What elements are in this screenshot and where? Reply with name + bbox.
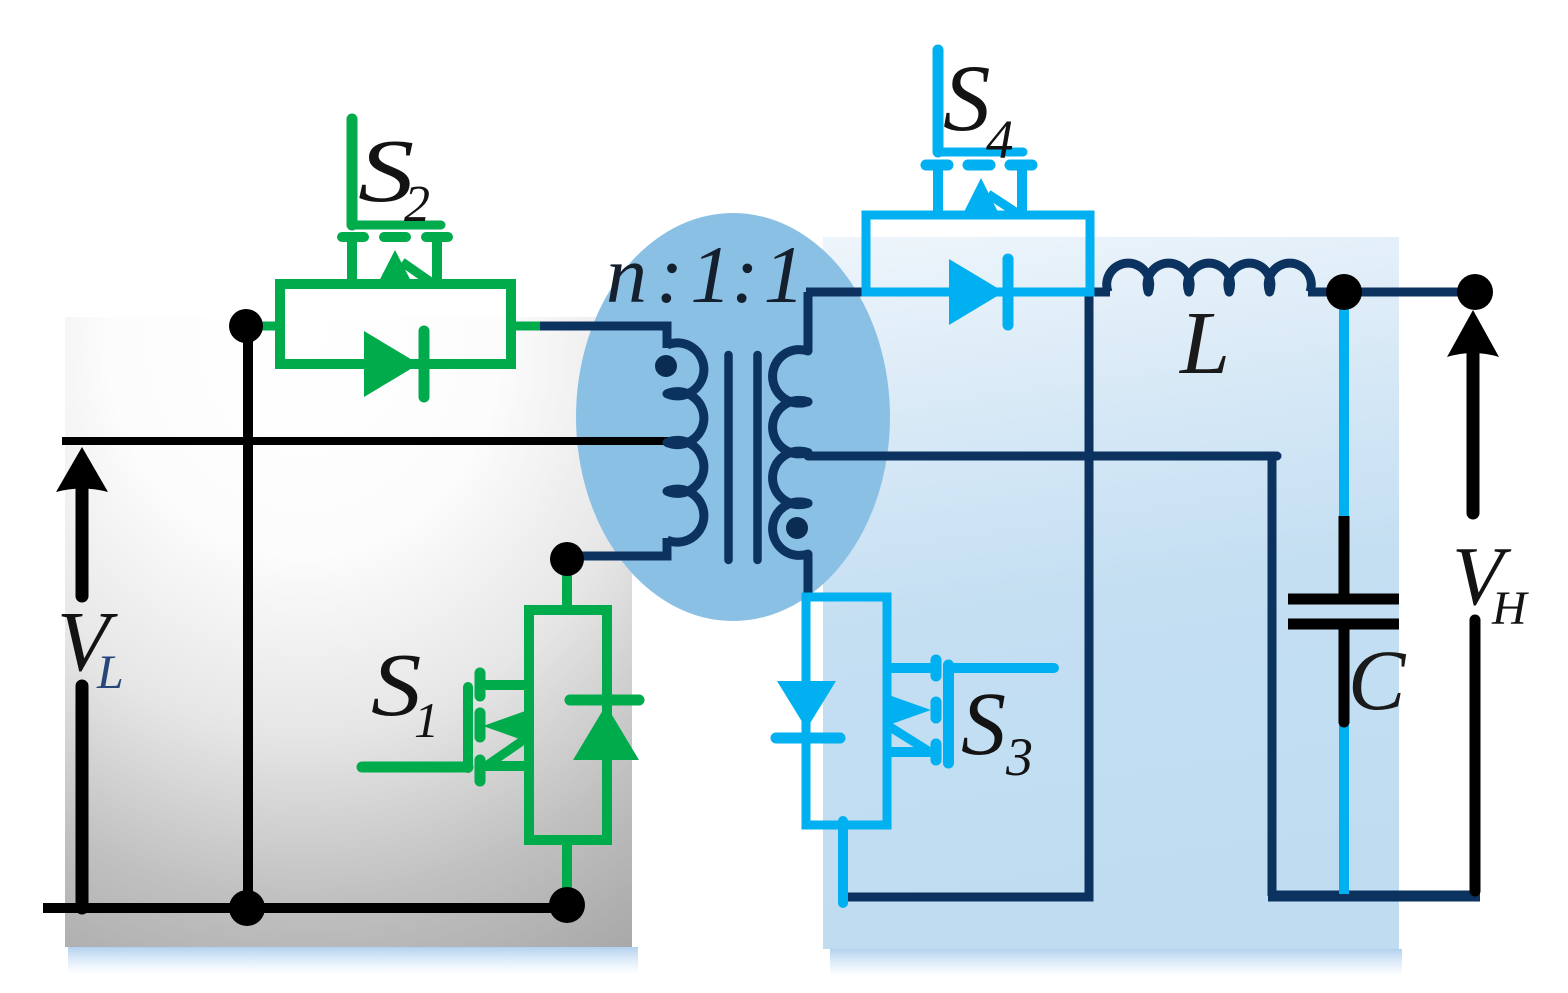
low-voltage side shaded panel <box>65 317 632 947</box>
channel segments <box>931 660 942 676</box>
wire: primary bottom lead <box>570 538 667 556</box>
terminal stubs <box>246 322 282 331</box>
transformer highlight ellipse <box>576 213 890 621</box>
body diode <box>364 331 419 397</box>
body arrow <box>962 178 1000 216</box>
node: S1 drain / primary bottom <box>550 542 584 576</box>
source arrow VL <box>56 447 108 492</box>
body diode <box>573 705 639 760</box>
body diode <box>949 259 1004 325</box>
drain/source drops <box>347 240 357 282</box>
wire: bottom rail VL- <box>43 903 568 913</box>
wire: inductor to VH+ <box>1308 288 1476 297</box>
body arrow <box>483 710 528 742</box>
svg-text:2: 2 <box>404 176 430 233</box>
channel segments <box>926 160 948 171</box>
switch S3 (MOSFET with body diode) <box>776 597 1054 903</box>
gate bar <box>463 687 473 768</box>
svg-text:4: 4 <box>986 109 1014 170</box>
switch body box <box>806 597 887 825</box>
terminal stubs <box>562 559 572 612</box>
svg-text:C: C <box>1348 632 1407 728</box>
svg-text:S: S <box>961 675 1006 774</box>
secondary polarity dot <box>786 517 808 539</box>
svg-text:3: 3 <box>1005 727 1033 787</box>
switch S1 (MOSFET with body diode) <box>362 559 639 905</box>
panel shadow <box>830 949 1402 977</box>
gate lead <box>933 50 944 152</box>
svg-text:L: L <box>96 646 124 699</box>
gate lead <box>362 762 468 773</box>
body diode <box>777 681 836 729</box>
drain/source connections <box>478 680 532 690</box>
drain/source drops <box>933 168 943 213</box>
body arrow <box>886 694 931 726</box>
gate lead <box>347 119 358 225</box>
high-voltage side shaded panel <box>823 237 1399 949</box>
svg-text:H: H <box>1491 582 1529 635</box>
capacitor C top cyan lead <box>1339 300 1349 522</box>
svg-text:n:1:1: n:1:1 <box>606 229 805 320</box>
svg-text:1: 1 <box>414 692 439 748</box>
wire: left vertical branch <box>243 326 253 908</box>
svg-text:S: S <box>943 45 991 151</box>
wire: S2 to transformer primary top <box>536 326 667 348</box>
gate bar <box>943 665 954 763</box>
transformer core <box>724 355 733 560</box>
drain/source connections <box>883 663 936 673</box>
switch S4 (MOSFET with body diode) <box>866 50 1090 325</box>
wire: transformer to S4 <box>806 288 867 297</box>
gate bar <box>938 148 1023 157</box>
capacitor C <box>1339 516 1350 596</box>
inductor L <box>1107 263 1312 292</box>
source stub <box>838 821 848 903</box>
body arrow <box>376 250 414 287</box>
svg-text:L: L <box>1178 294 1230 393</box>
output arrow VH <box>1447 310 1499 357</box>
transformer primary winding <box>667 343 704 542</box>
wire: secondary center tap to output return <box>808 452 1277 461</box>
gate bar <box>352 221 441 230</box>
gate lead <box>953 663 1054 673</box>
wire: S4 to inductor <box>1088 288 1110 297</box>
transformer secondary winding <box>773 292 808 600</box>
capacitor C bottom cyan lead <box>1339 725 1349 894</box>
channel segments <box>342 232 364 242</box>
node: bottom rail / branch <box>229 890 265 926</box>
wire: bottom output rail <box>1268 891 1480 902</box>
wire: S4 drain down to S3 source <box>843 292 1089 897</box>
wire: top rail VL+ <box>62 437 678 445</box>
channel segments <box>475 673 486 696</box>
primary polarity dot <box>655 355 677 377</box>
node: inductor/capacitor junction <box>1326 274 1362 310</box>
switch body box <box>529 610 607 840</box>
panel shadow <box>68 947 638 975</box>
node: S2 left / VL+ branch <box>229 309 263 343</box>
node: S1 source / bottom rail <box>549 887 585 923</box>
node: VH+ terminal <box>1457 274 1493 310</box>
switch S2 (MOSFET with body diode) <box>246 119 540 397</box>
switch body box <box>280 284 511 364</box>
switch body box <box>866 215 1090 292</box>
